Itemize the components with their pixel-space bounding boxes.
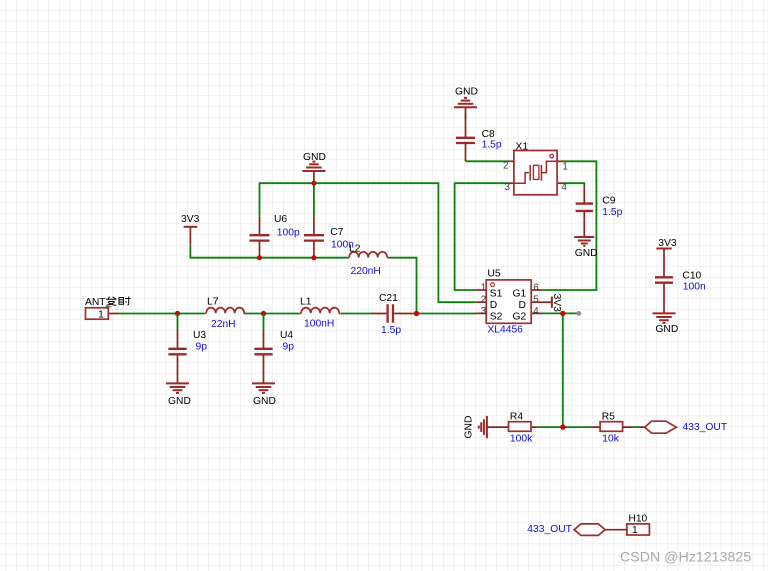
svg-text:22nH: 22nH: [211, 319, 236, 330]
svg-text:H10: H10: [628, 514, 647, 525]
svg-text:D: D: [490, 300, 497, 311]
junction C7 top at GND rail: [311, 181, 316, 186]
crystal X1 pin1 marker circle: [550, 154, 554, 158]
capacitor U3: [168, 314, 186, 384]
svg-text:ANT_: ANT_: [85, 297, 112, 308]
svg-text:1.5p: 1.5p: [482, 140, 502, 151]
svg-text:U3: U3: [193, 330, 206, 341]
svg-text:R5: R5: [602, 412, 615, 423]
svg-text:GND: GND: [575, 248, 598, 259]
IC U5 pin1 marker circle: [491, 283, 495, 287]
svg-text:L1: L1: [300, 297, 312, 308]
CJK glyph 射: [119, 297, 131, 306]
svg-text:L2: L2: [349, 243, 361, 254]
ground under C9: [574, 237, 594, 246]
wire top GND rail from U6 to corner down to U5 pin2: [260, 183, 476, 302]
svg-text:100nH: 100nH: [304, 319, 334, 330]
junction U6 bottom: [257, 255, 262, 260]
svg-text:6: 6: [533, 282, 539, 293]
svg-text:3: 3: [505, 182, 511, 193]
port 433_OUT bottom hexagon: [574, 524, 605, 536]
ground above C7 (flipped up): [302, 162, 325, 171]
svg-text:C9: C9: [602, 196, 615, 207]
wire 3V3 rail to L2: [190, 245, 348, 258]
wire U5 pin4 to gray dot and down to R4/R5 node: [542, 313, 579, 427]
svg-text:XL4456: XL4456: [487, 325, 523, 336]
svg-text:5: 5: [533, 294, 539, 305]
svg-text:433_OUT: 433_OUT: [527, 524, 572, 535]
svg-text:GND: GND: [253, 396, 276, 407]
svg-text:C10: C10: [682, 271, 701, 282]
svg-text:1.5p: 1.5p: [381, 325, 401, 336]
svg-text:100p: 100p: [277, 228, 300, 239]
crystal X1 inner symbol: [515, 161, 557, 183]
svg-text:L7: L7: [207, 297, 219, 308]
svg-text:GND: GND: [303, 152, 326, 163]
wire main horizontal net ANT to U5 pin3: [117, 313, 476, 315]
junction node A (177.5,313.5): [175, 311, 180, 316]
junction R4/R5 node: [560, 424, 565, 429]
IC U5 pin stubs: [476, 290, 542, 313]
svg-text:3: 3: [481, 306, 487, 317]
power flag 3V3 (left): [184, 227, 198, 245]
port ANT_发射 box: [86, 308, 109, 319]
wire X1 pin3 to U5 pin1: [455, 183, 508, 290]
svg-text:R4: R4: [510, 412, 523, 423]
capacitor U4: [254, 314, 272, 384]
port 433_OUT right hexagon: [645, 421, 677, 433]
svg-text:1.5p: 1.5p: [602, 207, 622, 218]
capacitor C9: [576, 186, 593, 238]
svg-text:GND: GND: [464, 416, 475, 439]
svg-text:GND: GND: [655, 324, 678, 335]
svg-text:9p: 9p: [283, 342, 295, 353]
wire R5 to port 433_OUT: [634, 426, 639, 428]
resistor R4 body: [509, 422, 532, 432]
svg-text:220nH: 220nH: [351, 266, 381, 277]
svg-text:D: D: [519, 300, 526, 311]
capacitor C7: [304, 217, 324, 258]
svg-text:C7: C7: [330, 227, 343, 238]
CJK glyph 发: [106, 297, 117, 306]
capacitor C21 (series, vertical plates): [371, 304, 412, 322]
svg-text:2: 2: [481, 294, 486, 305]
capacitor U6: [250, 217, 270, 258]
crystal X1 body box: [514, 151, 557, 195]
crystal X1 pin stubs: [508, 161, 563, 183]
svg-text:U4: U4: [280, 330, 293, 341]
svg-text:C21: C21: [379, 293, 398, 304]
svg-text:9p: 9p: [196, 342, 208, 353]
svg-text:10k: 10k: [602, 434, 619, 445]
stem GND above C7: [313, 171, 315, 183]
svg-text:G2: G2: [513, 311, 527, 322]
svg-text:433_OUT: 433_OUT: [683, 422, 728, 433]
stem GND above C8: [465, 107, 467, 119]
ground under U3: [166, 383, 189, 393]
power flag 3V3 at U5 pin5: [542, 297, 552, 308]
svg-text:CSDN @Hz1213825: CSDN @Hz1213825: [620, 550, 751, 566]
ground at R4 (rotated left): [479, 416, 487, 438]
svg-text:1: 1: [632, 525, 638, 536]
resistor R5 leads: [591, 426, 645, 428]
connector H10 box: [627, 524, 650, 535]
junction node C21 right (416.5,313.5): [414, 311, 419, 316]
svg-text:S1: S1: [490, 288, 503, 299]
svg-text:U6: U6: [274, 214, 287, 225]
wire C8 bottom to X1 pin2: [466, 114, 509, 162]
svg-text:GND: GND: [168, 396, 191, 407]
svg-text:100k: 100k: [510, 434, 533, 445]
svg-text:4: 4: [533, 306, 539, 317]
power flag 3V3 (right, above C10): [656, 249, 671, 277]
wire port to H10: [605, 529, 627, 531]
svg-text:U5: U5: [487, 268, 500, 279]
wire X1 pin1 to U5 pin6: [542, 161, 597, 290]
junction node B (263.5,313.5): [261, 311, 266, 316]
svg-text:1: 1: [481, 282, 486, 293]
inductor L7: [205, 308, 245, 314]
svg-text:3V3: 3V3: [551, 294, 562, 313]
wire GND rail to C7 top: [313, 183, 315, 217]
ground under U4: [252, 383, 275, 393]
junction U5 pin4 node: [560, 311, 565, 316]
ground under C10: [653, 313, 676, 323]
inductor L2: [348, 252, 389, 258]
no-connect gray dot: [576, 311, 581, 316]
svg-text:3V3: 3V3: [658, 238, 677, 249]
svg-text:1: 1: [98, 310, 104, 321]
svg-text:1: 1: [562, 161, 567, 172]
svg-text:GND: GND: [455, 87, 478, 98]
capacitor C8: [456, 119, 475, 161]
IC U5 body box: [486, 280, 531, 323]
inductor L1: [300, 308, 340, 314]
svg-text:2: 2: [503, 161, 508, 172]
svg-text:G1: G1: [513, 288, 527, 299]
port ANT_发射 pin stub: [108, 313, 118, 315]
ground above C8 (flipped up): [454, 98, 477, 107]
svg-text:4: 4: [561, 182, 567, 193]
svg-text:S2: S2: [490, 311, 503, 322]
junction C7 bottom: [311, 255, 316, 260]
svg-text:X1: X1: [516, 142, 529, 153]
resistor R4 leads: [487, 426, 537, 428]
wire R4 to R5 segment: [537, 426, 590, 428]
svg-text:3V3: 3V3: [181, 214, 200, 225]
svg-text:100n: 100n: [683, 281, 706, 292]
wire X1 pin4 to C9: [563, 183, 584, 185]
wire L2 right to main line junction: [389, 258, 417, 314]
capacitor C10: [655, 277, 673, 313]
resistor R5 body: [600, 422, 623, 432]
